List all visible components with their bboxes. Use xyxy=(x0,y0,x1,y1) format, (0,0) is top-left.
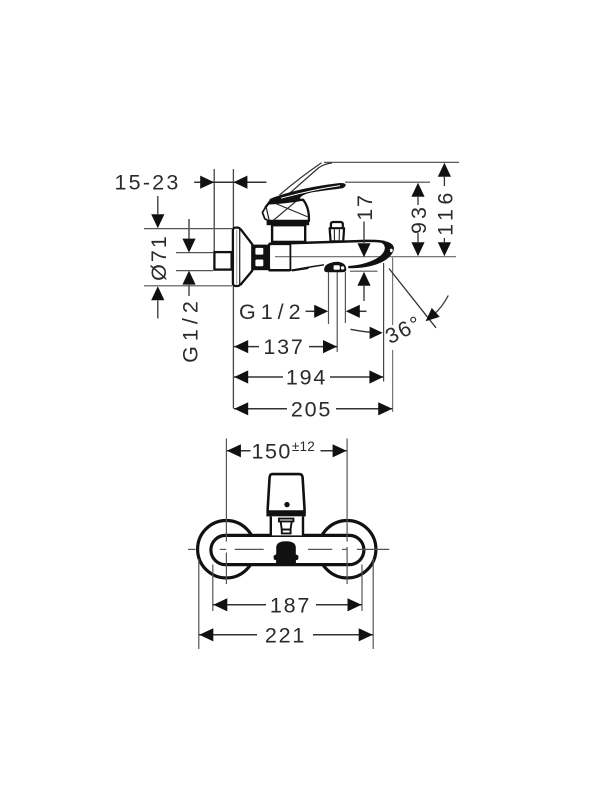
dimension 221 xyxy=(199,623,373,647)
svg-text:17: 17 xyxy=(353,193,377,221)
spout angle line 36 xyxy=(389,269,436,328)
svg-text:G1/2: G1/2 xyxy=(239,300,306,324)
extension line 15-23 left xyxy=(213,169,215,251)
diverter knob xyxy=(330,222,345,241)
escutcheon xyxy=(233,228,252,286)
svg-text:93: 93 xyxy=(407,204,431,234)
wall line xyxy=(232,169,234,409)
cartridge housing xyxy=(272,225,305,242)
extension lines 187 xyxy=(213,565,362,612)
handle knob front xyxy=(274,541,299,564)
dimension 17 xyxy=(353,193,377,301)
svg-text:194: 194 xyxy=(286,365,327,389)
extension lines 221 xyxy=(199,559,373,649)
dimension 116 xyxy=(434,163,458,256)
line under spout outlet xyxy=(350,270,378,272)
svg-text:150±12: 150±12 xyxy=(252,439,315,464)
extension lines 150 xyxy=(226,439,347,585)
dimension G1/2 spout outlet xyxy=(239,300,367,324)
dimension lines O71 xyxy=(144,229,232,286)
svg-text:116: 116 xyxy=(434,188,458,236)
wall escutcheon circles xyxy=(198,521,376,578)
extension line 116 top xyxy=(324,161,459,163)
label 36 deg xyxy=(382,311,427,349)
dimension 194 xyxy=(234,365,384,389)
angle leader arrows xyxy=(351,296,449,340)
handle front xyxy=(266,474,305,516)
svg-text:G1/2: G1/2 xyxy=(178,296,202,363)
faucet body and spout xyxy=(269,242,392,271)
dimension 15-23 xyxy=(115,171,267,195)
extension line 205 xyxy=(392,258,394,413)
cartridge band xyxy=(267,221,310,225)
column neck xyxy=(271,516,303,535)
spout bottom level line xyxy=(275,256,456,258)
extension line 93 top xyxy=(345,181,430,183)
handle base xyxy=(262,199,309,221)
diverter front xyxy=(279,519,294,534)
stub dimension arrows xyxy=(182,219,195,296)
svg-text:15-23: 15-23 xyxy=(115,171,181,195)
svg-text:36°: 36° xyxy=(382,311,427,349)
outlet extension lines xyxy=(329,272,346,352)
dimension 93 xyxy=(407,183,431,256)
dimension O71 xyxy=(147,196,171,319)
G1/2 pipe stub xyxy=(214,252,231,270)
svg-text:137: 137 xyxy=(263,335,304,359)
body capsule xyxy=(211,535,364,564)
aerator outlet xyxy=(324,262,346,273)
dimension 137 xyxy=(234,335,337,359)
union nut xyxy=(252,245,270,271)
extension line 194 xyxy=(383,263,385,382)
dimension 187 xyxy=(213,593,362,617)
dimension 150 +/-12 xyxy=(226,439,347,464)
handle raised ghost lines xyxy=(280,163,333,197)
stub dimension lines xyxy=(176,253,213,271)
svg-text:Ø71: Ø71 xyxy=(147,234,171,281)
dimension 205 xyxy=(234,397,393,421)
body outlines xyxy=(269,241,394,271)
svg-text:187: 187 xyxy=(270,593,311,617)
svg-text:221: 221 xyxy=(265,623,306,647)
center line horizontal xyxy=(188,548,389,550)
svg-text:205: 205 xyxy=(291,397,332,421)
label G1/2 left xyxy=(178,296,202,363)
handle lever xyxy=(268,183,346,205)
